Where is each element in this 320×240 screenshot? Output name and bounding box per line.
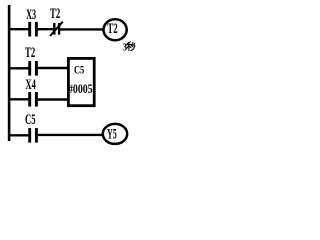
svg-text:T2: T2 <box>50 6 60 22</box>
svg-text:Y5: Y5 <box>107 127 117 143</box>
contact T2 (NO, rung2) <box>30 61 37 76</box>
wire rung1 rail to contact X3 <box>9 28 29 30</box>
wire rung1 to coil T2 <box>59 28 103 30</box>
wire rung3 to counter box <box>36 98 68 100</box>
svg-text:3: 3 <box>123 42 127 53</box>
coil Y5 <box>103 124 127 144</box>
wire rung2 to counter box <box>36 67 68 69</box>
counter box C5 <box>68 58 94 105</box>
coil T2 <box>104 19 127 40</box>
svg-text:X4: X4 <box>26 77 36 93</box>
contact C5 (NO) <box>30 128 37 143</box>
wire rung4 rail to contact C5 <box>9 134 29 136</box>
kanji byou (seconds) <box>127 42 135 51</box>
contact T2 (NC) <box>50 22 63 36</box>
contact X4 (NO) <box>30 92 37 107</box>
wire rung2 rail to contact T2 <box>9 67 29 69</box>
svg-text:T2: T2 <box>107 21 117 37</box>
svg-text:X3: X3 <box>26 7 36 23</box>
left power rail <box>8 5 11 141</box>
svg-text:C5: C5 <box>25 112 36 128</box>
svg-text:#0005: #0005 <box>68 82 93 96</box>
wire rung3 rail to contact X4 <box>9 98 29 100</box>
svg-text:T2: T2 <box>25 45 35 61</box>
wire rung1 between contacts <box>36 28 54 30</box>
contact X3 (NO) <box>30 22 37 37</box>
svg-text:C5: C5 <box>74 64 84 76</box>
wire rung4 to coil Y5 <box>36 134 102 136</box>
